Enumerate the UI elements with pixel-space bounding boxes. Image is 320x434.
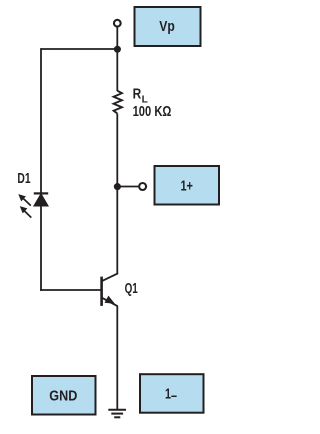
wire: junction down to resistor xyxy=(116,49,118,91)
svg-text:100 KΩ: 100 KΩ xyxy=(133,104,172,120)
wire: left branch down to diode xyxy=(40,48,42,193)
wire: emitter down to ground xyxy=(116,306,118,410)
label RL xyxy=(133,87,148,106)
wire: collector up to middle junction xyxy=(116,187,118,275)
wire: resistor down to middle junction xyxy=(116,114,118,187)
light arrow 2 of D1 xyxy=(20,206,32,218)
svg-text:1+: 1+ xyxy=(180,178,193,194)
svg-text:D1: D1 xyxy=(17,171,30,187)
svg-text:GND: GND xyxy=(49,389,77,405)
svg-text:Vp: Vp xyxy=(159,19,175,35)
svg-text:1–: 1– xyxy=(165,387,177,405)
terminal circle 1+ xyxy=(139,183,146,190)
node box GND xyxy=(32,376,96,415)
transistor Q1 xyxy=(102,273,118,306)
node box Vp xyxy=(135,7,201,46)
junction dot node 1+ xyxy=(114,183,121,190)
resistor RL xyxy=(114,91,122,114)
photodiode D1 xyxy=(34,193,49,206)
junction dot top node xyxy=(114,46,121,53)
ground xyxy=(108,410,126,418)
svg-text:R: R xyxy=(133,87,142,103)
wire: top horizontal from junction to left branch xyxy=(41,48,117,50)
wire: corner to transistor base xyxy=(40,289,100,291)
light arrow 1 of D1 xyxy=(18,194,31,206)
node box 1- xyxy=(140,374,204,413)
terminal circle Vp xyxy=(114,20,121,27)
node box 1+ xyxy=(155,166,220,205)
svg-text:Q1: Q1 xyxy=(125,281,138,297)
wire: diode down to corner xyxy=(40,206,42,291)
wire: top terminal stub to junction xyxy=(116,27,118,49)
wire: junction to 1+ terminal xyxy=(117,186,138,188)
